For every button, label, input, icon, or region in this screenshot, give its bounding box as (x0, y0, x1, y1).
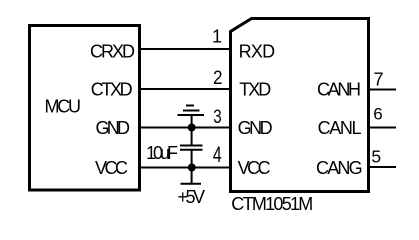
svg-text:VCC: VCC (238, 158, 271, 178)
svg-text:5: 5 (371, 147, 381, 167)
svg-text:CRXD: CRXD (90, 41, 135, 61)
svg-text:7: 7 (373, 69, 383, 89)
svg-text:CANL: CANL (318, 118, 362, 138)
svg-text:3: 3 (213, 106, 221, 128)
svg-text:10uF: 10uF (146, 143, 178, 163)
svg-text:VCC: VCC (95, 158, 128, 178)
svg-text:MCU: MCU (45, 97, 82, 117)
svg-text:GND: GND (238, 118, 273, 138)
svg-text:RXD: RXD (239, 41, 276, 61)
svg-text:CANG: CANG (316, 158, 363, 178)
svg-text:+5V: +5V (178, 187, 206, 207)
svg-text:4: 4 (213, 142, 222, 167)
svg-text:CANH: CANH (317, 79, 361, 99)
svg-text:GND: GND (96, 118, 131, 138)
svg-text:6: 6 (373, 105, 382, 124)
svg-text:2: 2 (213, 67, 223, 89)
svg-text:1: 1 (212, 27, 222, 47)
svg-text:TXD: TXD (239, 79, 271, 99)
svg-text:CTM1051M: CTM1051M (231, 194, 313, 214)
svg-text:CTXD: CTXD (91, 79, 133, 99)
